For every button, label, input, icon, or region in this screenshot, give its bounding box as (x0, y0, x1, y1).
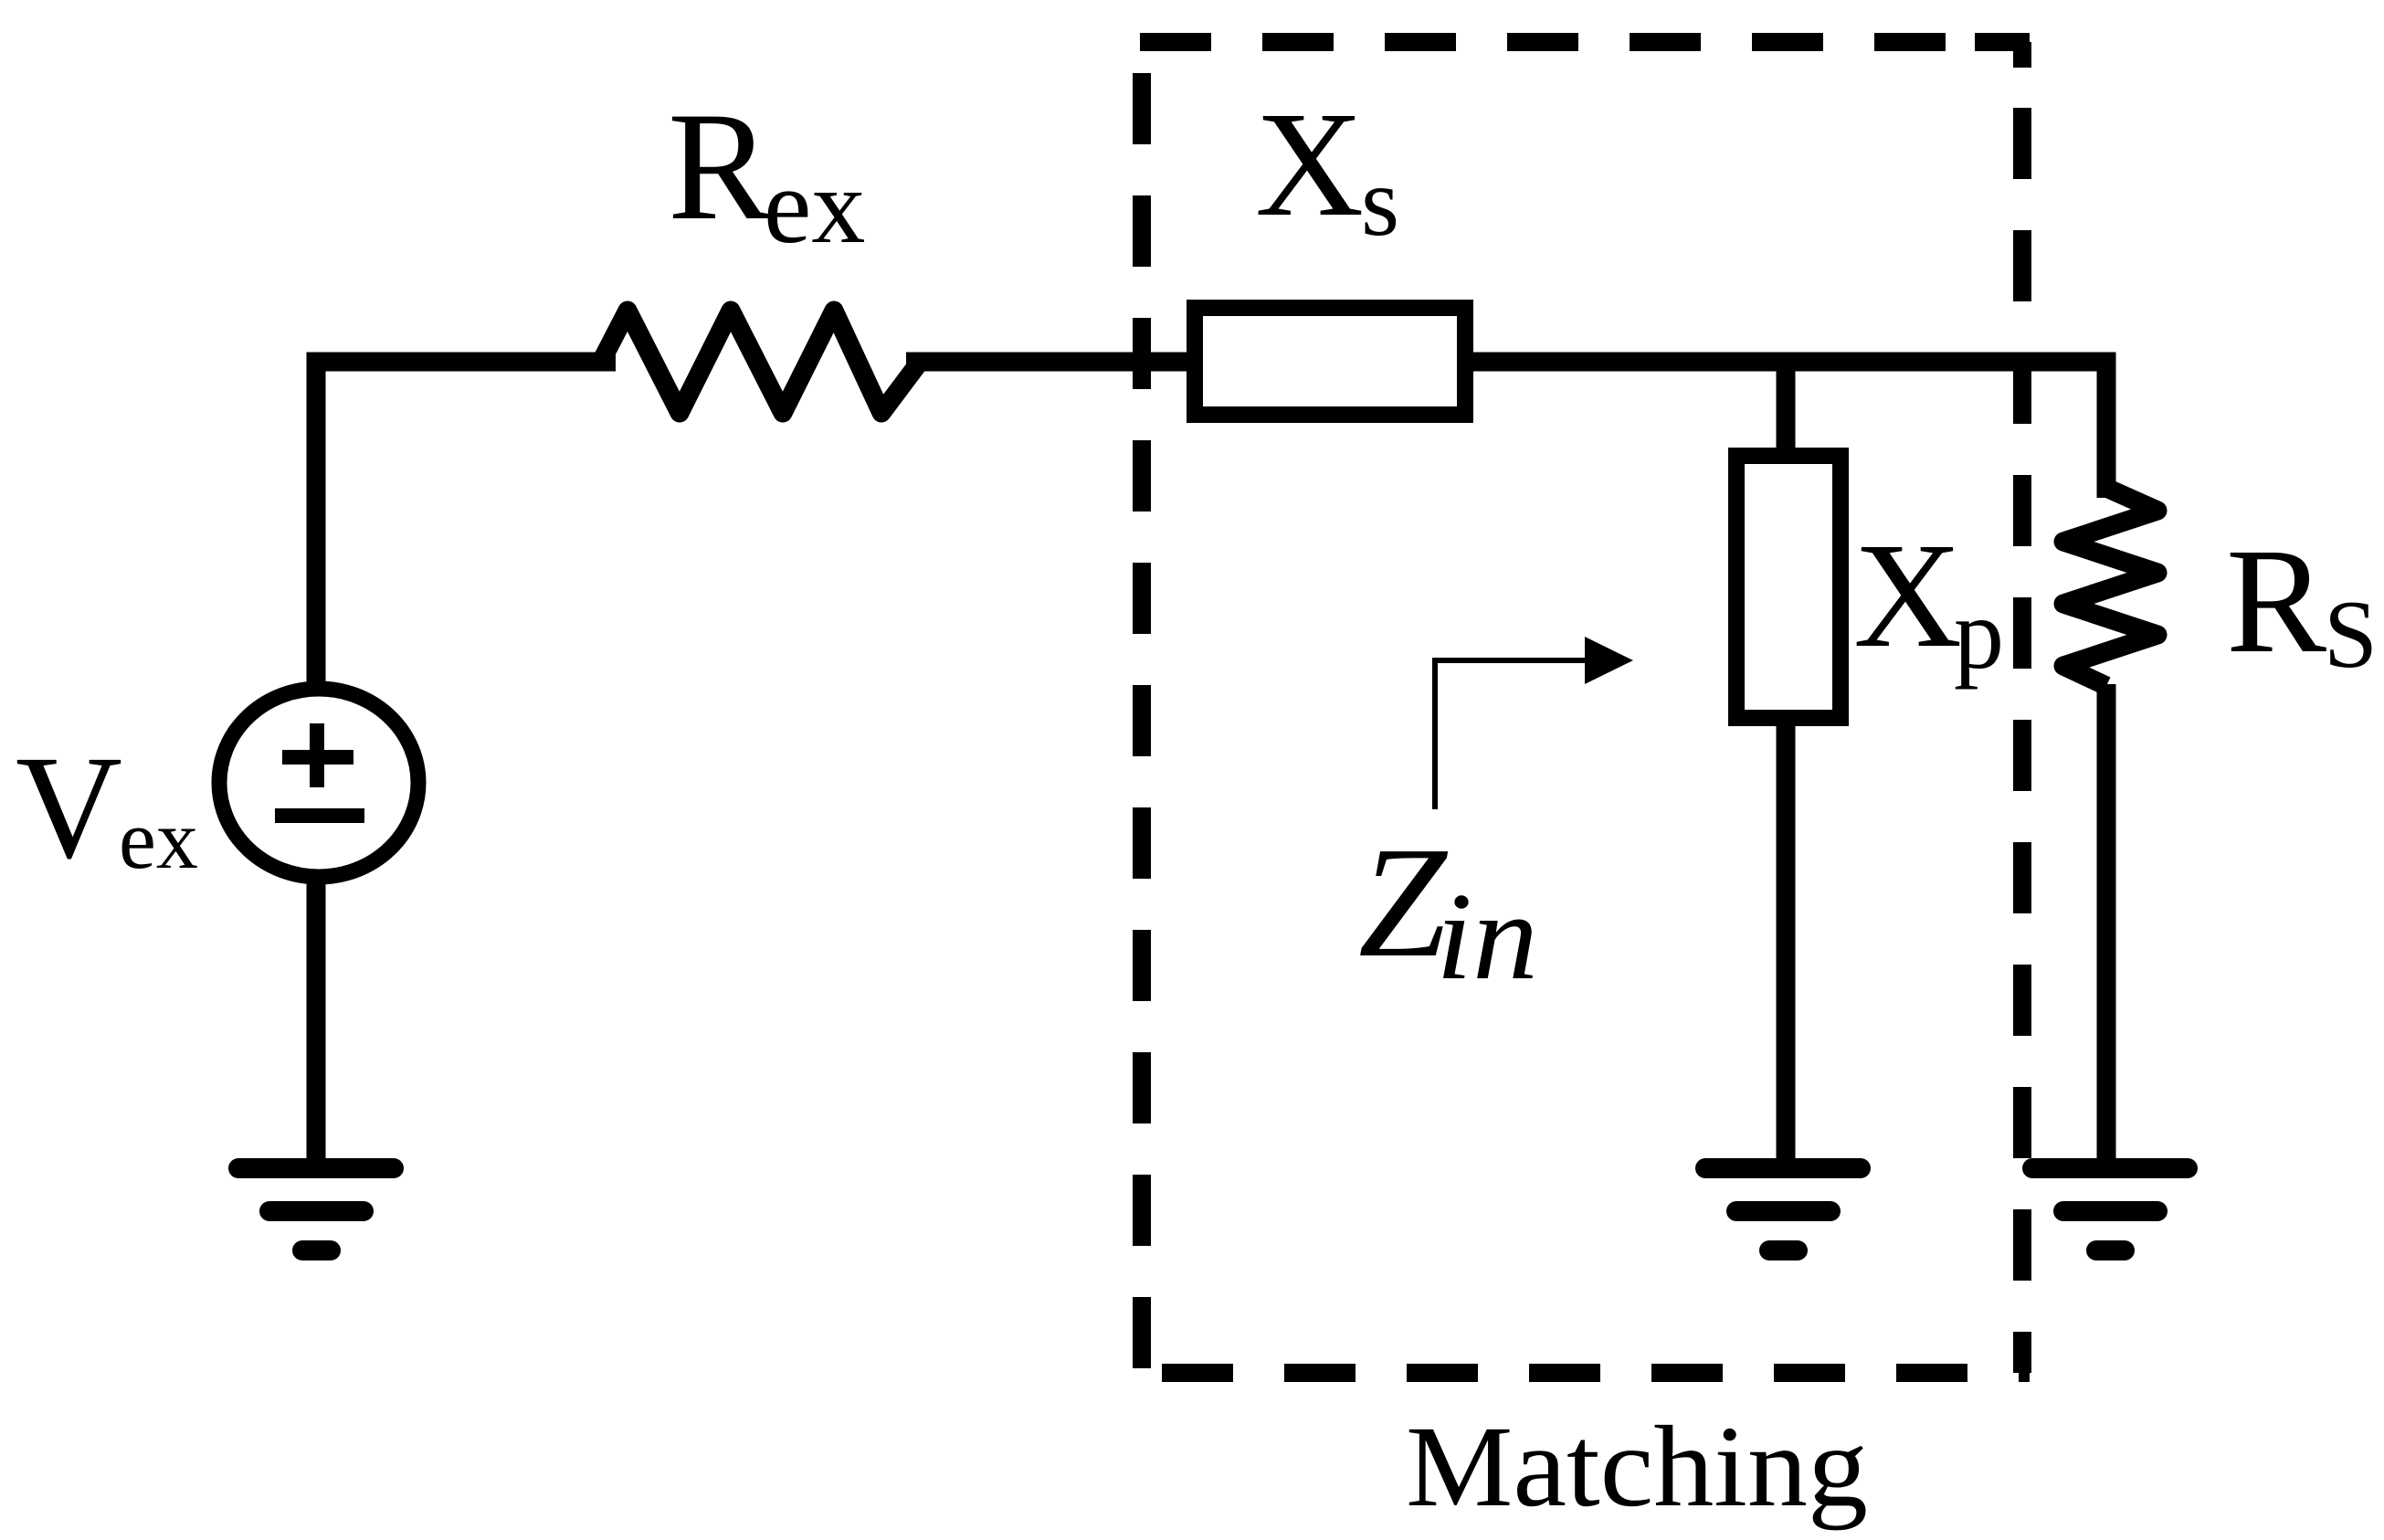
svg-text:R: R (2226, 517, 2326, 684)
wire Xs box to right corner and down (1461, 362, 2106, 498)
svg-text:s: s (1361, 148, 1399, 257)
dashed matching-network box (1140, 42, 2030, 1373)
svg-text:p: p (1954, 578, 2004, 690)
Z_in arrow (1435, 660, 1594, 809)
ground under source (238, 1168, 394, 1250)
svg-text:ex: ex (119, 793, 198, 886)
ground under Xp (1705, 1168, 1861, 1250)
svg-text:ex: ex (764, 146, 865, 266)
resistor R_ex (601, 311, 920, 413)
wire R_S to ground (2097, 684, 2116, 1169)
wire from source to resistor (left L) (316, 362, 616, 690)
ground under R_S (2032, 1168, 2188, 1250)
plus sign (282, 750, 353, 765)
svg-text:R: R (668, 80, 772, 252)
svg-text:X: X (1853, 512, 1962, 679)
wire resistor to Xs box (906, 353, 1197, 372)
wire source to ground (307, 877, 326, 1169)
svg-text:S: S (2324, 581, 2378, 688)
svg-text:in: in (1436, 867, 1538, 1006)
component box Xs (1195, 308, 1465, 415)
voltage source V_ex circle (219, 689, 418, 877)
component box Xp (1736, 456, 1841, 718)
wire Xp to ground (1777, 716, 1796, 1169)
resistor R_S (vertical) (2063, 488, 2157, 686)
svg-text:V: V (16, 726, 122, 890)
node junction wire down to Xp (1777, 362, 1796, 461)
svg-text:Matching: Matching (1406, 1403, 1868, 1531)
svg-text:X: X (1255, 80, 1364, 248)
minus sign (275, 808, 364, 823)
